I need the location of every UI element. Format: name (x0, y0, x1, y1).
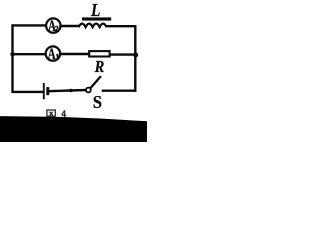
svg-text:A: A (48, 45, 56, 62)
switch lever (90, 76, 101, 88)
switch contact dot (69, 89, 73, 93)
svg-text:S: S (93, 92, 102, 111)
inductor L coil (79, 24, 107, 28)
ammeter A2 (46, 17, 60, 34)
caption fragment: digit 4 (62, 110, 67, 117)
ammeter A1 (46, 45, 60, 62)
caption fragment: character box (figure glyph) (47, 110, 55, 116)
wire: right vertical (134, 25, 136, 92)
battery short plate (46, 87, 49, 95)
wire: top branch left segment (12, 24, 47, 26)
wire: A2 to inductor (61, 25, 80, 27)
svg-text:L: L (90, 0, 100, 20)
switch pivot circle (86, 88, 91, 93)
svg-text:R: R (94, 58, 105, 76)
svg-text:2: 2 (55, 25, 59, 33)
junction dot right (133, 53, 138, 58)
black censor band (0, 116, 147, 142)
battery long plate (43, 83, 45, 99)
svg-text:1: 1 (56, 53, 60, 61)
wire: bottom left segment (12, 91, 44, 93)
wire: resistor to right junction (110, 53, 134, 55)
junction dot left (10, 52, 15, 57)
wire: A1 to resistor (60, 53, 88, 55)
wire: left vertical (11, 24, 13, 92)
wire: switch to bottom-right corner (102, 89, 137, 91)
inductor L core bar (82, 17, 111, 20)
wire: inductor to top-right corner (106, 25, 136, 27)
wire: middle branch left segment (12, 53, 46, 55)
wire: battery to switch (49, 90, 86, 91)
resistor R (89, 51, 109, 56)
